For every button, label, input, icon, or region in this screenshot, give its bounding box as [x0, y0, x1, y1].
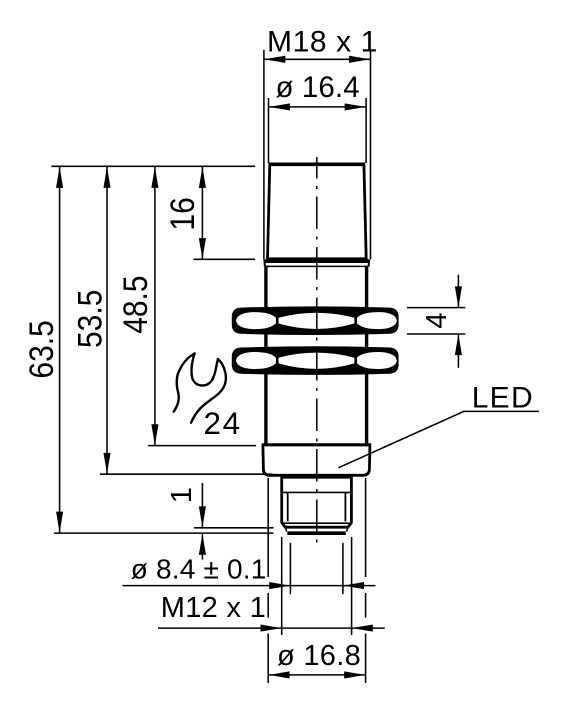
M12 connector [282, 476, 352, 533]
dimension 48.5 [116, 167, 256, 446]
svg-text:63.5: 63.5 [22, 320, 60, 378]
dimension 4 (nut height) [407, 275, 465, 368]
ø16.8 extension line left (segmented) [267, 478, 269, 683]
ø16.4 extension line left [268, 98, 270, 163]
dimension 1 (connector end) [166, 483, 273, 560]
4 extension line bottom [407, 333, 465, 335]
16 dimension line [201, 167, 203, 259]
1 arrow up [199, 534, 206, 555]
4 arrow down [455, 286, 462, 307]
centerline (vertical axis) [316, 157, 318, 543]
ø8.4 extension line left [289, 543, 291, 594]
53.5 bottom extension line [100, 473, 273, 475]
63.5 arrow up [56, 167, 63, 188]
collar ring below head [264, 260, 369, 267]
53.5 arrow up [103, 167, 110, 188]
svg-text:24: 24 [204, 405, 242, 441]
48.5 bottom extension line [148, 445, 256, 447]
1 dimension line upper [201, 483, 203, 527]
ø16.8 arrow right [344, 671, 365, 678]
1 upper extension line [194, 527, 274, 529]
1 dimension line lower [201, 534, 203, 560]
svg-text:ø 8.4 ± 0.1: ø 8.4 ± 0.1 [131, 554, 267, 585]
48.5 arrow down [151, 424, 158, 445]
ø16.8 extension line right (segmented) [365, 478, 367, 683]
svg-text:ø 16.4: ø 16.4 [276, 71, 360, 104]
svg-text:1: 1 [166, 487, 198, 503]
dimension M18 x 1 [264, 26, 378, 260]
1 arrow down [199, 506, 206, 527]
svg-text:53.5: 53.5 [71, 290, 109, 348]
svg-text:48.5: 48.5 [116, 275, 154, 333]
dimension ø 16.4 [269, 71, 367, 163]
16 arrow down [199, 238, 206, 259]
4 extension line top [407, 307, 465, 309]
ø16.8 arrow left [269, 671, 290, 678]
4 arrow up [455, 334, 462, 355]
63.5 dimension line [59, 167, 61, 533]
48.5 dimension line [154, 167, 156, 445]
sensor head (sensing face, trapezoid) [268, 164, 367, 259]
M18 extension line right [370, 50, 372, 260]
ø8.4 arrow right [343, 582, 364, 589]
dimension M12 x 1 [158, 537, 385, 635]
ø8.4 dimension line [123, 585, 376, 587]
M18 extension line left [263, 50, 265, 260]
ø8.4 extension line right [342, 543, 344, 594]
ø16.4 arrow right [345, 103, 366, 110]
dimension 53.5 [71, 167, 273, 474]
48.5 arrow up [151, 167, 158, 188]
dimension ø 16.8 [268, 478, 365, 683]
left dimensions common top extension line [51, 165, 255, 167]
ø8.4 arrow left [269, 582, 290, 589]
53.5 arrow down [103, 453, 110, 474]
dimension 63.5 [22, 167, 274, 533]
wrench size symbol 24 [174, 354, 226, 423]
4 dimension line lower [457, 334, 459, 368]
16 bottom extension line [193, 258, 255, 260]
hex nut 2 [232, 346, 399, 375]
dimension 16 [163, 167, 255, 259]
svg-text:ø 16.8: ø 16.8 [277, 640, 361, 672]
svg-text:M18 x 1: M18 x 1 [267, 26, 378, 59]
M18 arrow left [264, 56, 285, 63]
threaded barrel body [266, 267, 367, 445]
63.5 bottom extension line [54, 532, 274, 534]
M12 extension line left [281, 537, 283, 635]
M12 arrow right [352, 625, 373, 632]
ø16.8 dimension line [268, 674, 365, 676]
hex nut 1 [232, 306, 399, 335]
M18 dimension line [264, 58, 371, 60]
LED leader line [338, 411, 539, 467]
svg-text:4: 4 [421, 312, 453, 328]
4 dimension line upper [457, 275, 459, 308]
dimension ø 8.4 ± 0.1 [123, 543, 376, 594]
ø16.4 arrow left [269, 103, 290, 110]
end cap (LED ring) [262, 445, 372, 476]
ø16.4 dimension line [269, 106, 367, 108]
ø16.4 extension line right [365, 98, 367, 163]
svg-text:M12 x 1: M12 x 1 [161, 592, 266, 624]
M18 arrow right [349, 56, 370, 63]
M12 extension line right [351, 537, 353, 635]
svg-text:LED: LED [472, 381, 534, 414]
M12 dimension line [158, 627, 385, 629]
M12 arrow left [261, 625, 282, 632]
16 arrow up [199, 167, 206, 188]
svg-text:16: 16 [163, 197, 201, 230]
53.5 dimension line [106, 167, 108, 474]
63.5 arrow down [56, 512, 63, 533]
